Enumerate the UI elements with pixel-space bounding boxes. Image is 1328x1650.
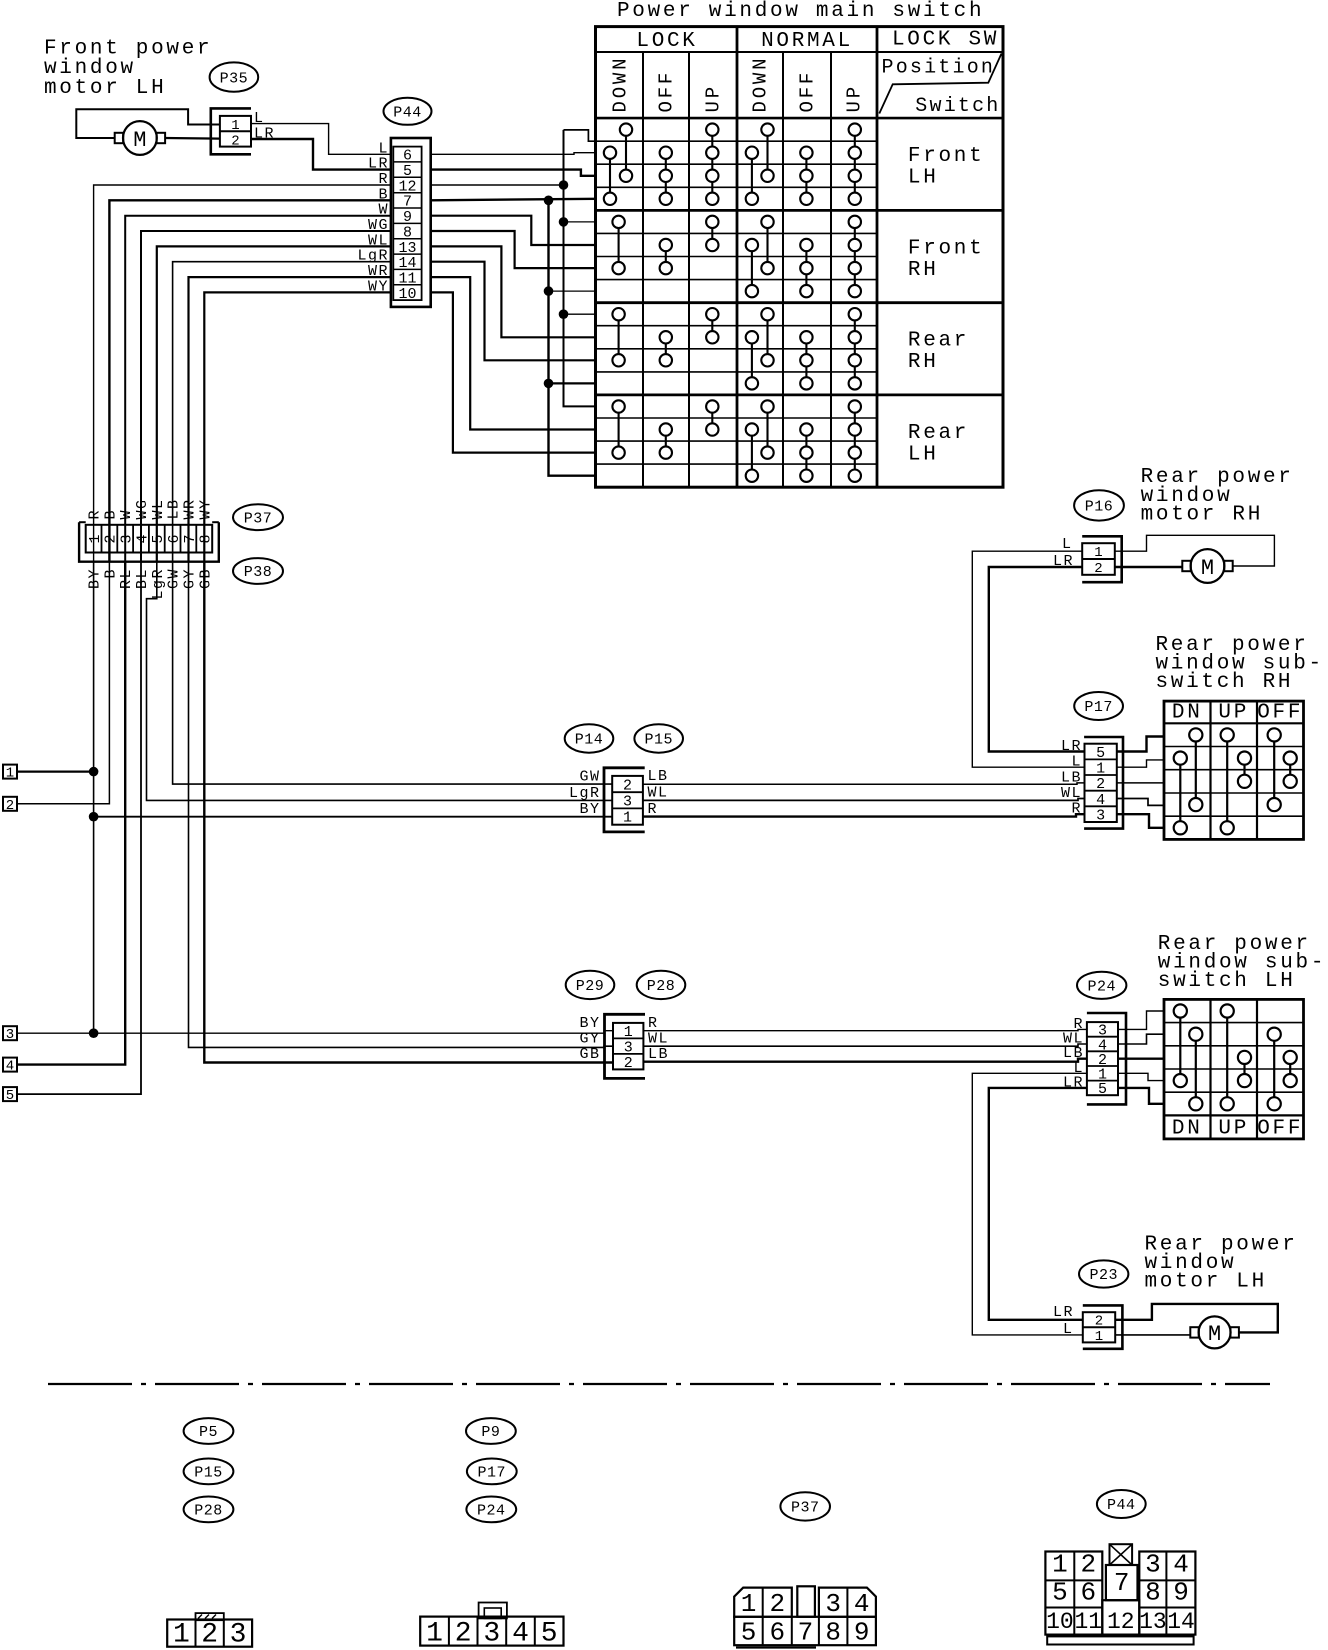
connector view P37 top-right block — [819, 1588, 876, 1617]
wire box1 to BY — [17, 770, 94, 772]
svg-text:2: 2 — [1094, 561, 1102, 577]
svg-text:5: 5 — [541, 1619, 558, 1650]
connector view P5/P15/P28 3-pin — [167, 1620, 252, 1647]
wire B P44 pin7 to table row4 — [431, 199, 596, 201]
connector P14 bracket — [604, 768, 645, 832]
wire P23 pin1 to motor LH — [1115, 1334, 1190, 1336]
oval label P15 — [634, 724, 683, 752]
oval label P16 — [1074, 490, 1124, 520]
svg-text:WG: WG — [134, 498, 151, 519]
svg-text:5: 5 — [6, 1088, 14, 1104]
wire P23 pin2 loop to motor LH — [1115, 1304, 1278, 1333]
svg-text:7: 7 — [798, 1618, 814, 1648]
svg-text:LR: LR — [1061, 738, 1082, 755]
junction BY box3 — [89, 1028, 99, 1038]
svg-text:3: 3 — [623, 794, 632, 811]
oval label P29 — [566, 971, 615, 999]
svg-text:LOCK: LOCK — [636, 30, 697, 53]
svg-text:WL: WL — [1061, 785, 1082, 802]
terminal box 1 — [3, 765, 17, 779]
svg-text:LR: LR — [1053, 1304, 1074, 1321]
connector P29 pin box — [613, 1023, 643, 1070]
svg-text:3: 3 — [230, 1620, 247, 1650]
svg-text:GW: GW — [166, 568, 183, 589]
wire L P16 pin1 to P17 pin1 — [972, 551, 1084, 767]
svg-text:13: 13 — [1139, 1609, 1167, 1635]
motor M rear RH — [1191, 549, 1225, 583]
svg-text:8: 8 — [198, 534, 215, 543]
wire P24 pin3 to table row1 — [1118, 1011, 1164, 1029]
wire P16 pin1 loop to motor RH — [1115, 535, 1275, 566]
connector P16 shell — [1082, 536, 1122, 582]
svg-text:DN: DN — [1172, 1118, 1203, 1141]
svg-text:UP: UP — [1218, 702, 1249, 725]
svg-text:M: M — [1201, 556, 1214, 581]
contacts OFF col rows 2-4 — [800, 147, 812, 159]
contacts UP col rows 1-4 — [849, 123, 861, 135]
svg-text:LB: LB — [166, 498, 183, 519]
connector view P37 9-pin — [734, 1588, 792, 1617]
wire WR P44 pin11 to table row14 — [431, 277, 596, 429]
oval label P37 — [233, 504, 283, 530]
svg-text:P29: P29 — [576, 978, 605, 995]
svg-text:P38: P38 — [244, 564, 273, 581]
main switch row lines — [596, 140, 878, 142]
oval label P17 — [1074, 692, 1123, 720]
wire WL P15 to P17 pin4 — [643, 799, 1085, 801]
svg-text:7: 7 — [182, 534, 199, 543]
svg-text:Position: Position — [882, 57, 996, 80]
svg-text:5: 5 — [1096, 745, 1105, 762]
svg-text:RH: RH — [908, 351, 939, 374]
svg-text:GB: GB — [197, 568, 214, 589]
svg-text:P15: P15 — [194, 1465, 223, 1482]
svg-text:P9: P9 — [481, 1424, 500, 1441]
svg-text:1: 1 — [1094, 545, 1102, 561]
svg-text:RL: RL — [118, 568, 135, 589]
svg-text:3: 3 — [825, 1589, 841, 1619]
terminal box 4 — [3, 1058, 17, 1072]
bus1 top jog to table row1 — [564, 130, 596, 141]
junction R bus1 — [559, 180, 569, 190]
connector view 5-pin latch tab — [479, 1603, 507, 1619]
svg-text:GW: GW — [579, 769, 600, 786]
wire LR P35 pin2 to P44 pin5 — [251, 139, 391, 170]
connector P24 pin box — [1087, 1022, 1118, 1095]
svg-text:M: M — [1208, 1322, 1221, 1347]
sub-switch LH contacts DN — [1174, 1004, 1187, 1017]
wire RL P37 pin3 to box4 — [17, 562, 125, 1065]
svg-text:1: 1 — [6, 766, 14, 782]
svg-text:WL: WL — [150, 498, 167, 519]
wire WG P44 pin8 to table row7 — [431, 231, 596, 268]
junction BY box1 — [89, 767, 99, 777]
svg-text:Front: Front — [908, 145, 985, 168]
wire WG P44 to P37 pin 4 — [141, 231, 391, 562]
svg-text:9: 9 — [1173, 1578, 1189, 1608]
sub-switch LH contacts OFF — [1268, 1028, 1281, 1041]
svg-text:4: 4 — [854, 1589, 870, 1619]
svg-text:P28: P28 — [647, 978, 676, 995]
contacts UP col rows 9-12 — [849, 308, 861, 320]
junction bus2 row8 — [544, 286, 554, 296]
bus1 tap to table row9 — [564, 313, 596, 315]
wire LB P28 to P24 pin2 — [643, 1059, 1087, 1062]
wire R P44 to P37 pin 1 — [94, 185, 391, 562]
motor M front LH — [123, 121, 157, 155]
svg-text:OFF: OFF — [1257, 1118, 1303, 1141]
svg-text:B: B — [102, 568, 119, 579]
svg-text:2: 2 — [1095, 1314, 1103, 1330]
wire WY P44 to P37 pin 8 — [204, 292, 391, 561]
connector P14 pin box — [612, 776, 643, 825]
sub-switch LH contacts UP — [1221, 1004, 1234, 1017]
wire LB P44 to P37 pin 6 — [173, 262, 391, 562]
svg-text:LB: LB — [1061, 769, 1082, 786]
svg-text:2: 2 — [1080, 1550, 1096, 1580]
wire WR P44 to P37 pin 7 — [189, 277, 391, 562]
wire WY P44 pin10 to table row15 — [431, 292, 596, 452]
connector P23 pin box — [1083, 1312, 1115, 1342]
wire motor LH right to P35 — [165, 137, 220, 140]
svg-text:6: 6 — [769, 1618, 785, 1648]
svg-text:R: R — [648, 1015, 659, 1032]
svg-text:P16: P16 — [1085, 499, 1114, 516]
contacts LOCK UP col rows 13-14 — [706, 400, 718, 412]
svg-text:4: 4 — [512, 1619, 529, 1650]
connector P29 bracket — [605, 1014, 646, 1078]
svg-text:NORMAL: NORMAL — [761, 30, 853, 53]
svg-text:P37: P37 — [244, 510, 273, 527]
wire P16 pin2 to motor RH — [1115, 566, 1183, 568]
wire P17 pin4 to table row4 — [1117, 799, 1164, 806]
connector view 3-pin latch tab — [196, 1613, 224, 1620]
contacts OFF col rows 14-16 — [800, 423, 812, 435]
svg-text:2: 2 — [1096, 776, 1105, 793]
connector view P9/P17/P24 5-pin — [420, 1617, 563, 1646]
contacts UP col rows 5-8 — [849, 216, 861, 228]
svg-text:LgR: LgR — [569, 785, 601, 802]
connector P44 shell — [391, 138, 431, 307]
svg-text:Front: Front — [908, 237, 985, 260]
wire W P44 to P37 pin 3 — [125, 216, 391, 562]
connector P17 shell — [1084, 737, 1123, 829]
wire LR P24 pin5 to P23 pin2 — [989, 1088, 1087, 1320]
svg-text:3: 3 — [119, 534, 136, 543]
connector P23 shell — [1083, 1305, 1123, 1348]
oval label P44 — [384, 98, 432, 125]
junction bus1 row5 — [559, 217, 569, 227]
svg-text:P14: P14 — [575, 732, 604, 749]
svg-text:LH: LH — [908, 167, 939, 190]
sub-switch RH contacts DN — [1189, 728, 1202, 741]
connector P37 shell — [79, 522, 219, 562]
svg-text:L: L — [1071, 754, 1082, 771]
wire LR P16 pin2 to P17 pin5 — [989, 567, 1085, 752]
svg-text:LB: LB — [648, 768, 669, 785]
svg-text:BL: BL — [134, 568, 151, 589]
wire P24 pin2 to table row3 — [1118, 1057, 1164, 1059]
bus1 tap to table row5 — [564, 221, 596, 223]
svg-text:GY: GY — [579, 1031, 600, 1048]
svg-text:UP: UP — [844, 84, 866, 112]
wire WL P44 to P37 pin 5 — [157, 246, 391, 561]
svg-text:LH: LH — [908, 443, 939, 466]
contacts DOWN col rows 13-16 — [761, 400, 773, 412]
oval label P37 bottom — [780, 1492, 830, 1520]
oval label P24 bottom — [466, 1497, 516, 1523]
svg-text:motor RH: motor RH — [1141, 504, 1263, 527]
contacts DOWN col rows 1-4 — [620, 123, 632, 135]
motor M rear LH — [1199, 1316, 1231, 1348]
wire BY to P14 pin1 — [94, 816, 613, 818]
svg-text:8: 8 — [1145, 1578, 1161, 1608]
sub-switch LH table frame — [1164, 999, 1304, 1139]
svg-text:P24: P24 — [1087, 979, 1116, 996]
contacts UP col rows 1-4 — [706, 123, 718, 135]
oval label P9 — [466, 1418, 516, 1444]
main switch header line — [596, 51, 1004, 53]
contacts UP col rows 13-16 — [849, 400, 861, 412]
wire R P15 to P17 pin3 — [643, 814, 1085, 816]
oval label P14 — [565, 724, 614, 752]
svg-text:4: 4 — [134, 534, 151, 543]
svg-text:WL: WL — [648, 1031, 669, 1048]
contacts LOCK UP col rows 5-6 — [706, 216, 718, 228]
svg-text:1: 1 — [624, 1024, 633, 1041]
sub-switch RH contacts UP — [1221, 728, 1234, 741]
svg-text:2: 2 — [103, 534, 120, 543]
svg-text:P23: P23 — [1089, 1267, 1118, 1284]
connector view P44 14-pin — [1045, 1552, 1102, 1635]
svg-text:4: 4 — [6, 1059, 14, 1075]
oval label P38 — [233, 558, 283, 584]
contacts LOCK DOWN col rows 9-11 — [612, 308, 624, 320]
svg-text:3: 3 — [6, 1027, 14, 1043]
junction BY P14 — [89, 812, 99, 822]
wire P24 pin4 to table row2 — [1118, 1034, 1164, 1044]
svg-text:Rear: Rear — [908, 330, 969, 353]
svg-text:R: R — [87, 509, 104, 520]
contacts OFF col rows 6-8 — [800, 239, 812, 251]
svg-text:9: 9 — [854, 1618, 870, 1648]
bus1 vertical R net — [564, 130, 596, 407]
connector P44 pin box — [393, 147, 421, 301]
connector view P44 right block — [1139, 1552, 1195, 1635]
svg-text:switch RH: switch RH — [1156, 671, 1294, 694]
oval label P24 — [1077, 972, 1126, 999]
svg-text:1: 1 — [623, 810, 632, 827]
wire R P28 to P24 pin3 — [643, 1029, 1087, 1030]
terminal box 2 — [3, 797, 17, 811]
svg-text:BY: BY — [87, 568, 104, 589]
svg-text:motor LH: motor LH — [1145, 1271, 1267, 1294]
connector view P37 bottom row — [734, 1617, 876, 1645]
svg-text:M: M — [133, 128, 146, 153]
svg-text:1: 1 — [173, 1620, 190, 1650]
svg-text:DOWN: DOWN — [610, 56, 632, 113]
main switch table frame — [596, 27, 1004, 488]
wire WL P28 to P24 pin4 — [643, 1044, 1087, 1046]
wire BL P37 pin4 to box5 — [17, 562, 141, 1094]
svg-text:8: 8 — [825, 1618, 841, 1648]
contacts LOCK DOWN col rows 5-7 — [612, 216, 624, 228]
svg-text:R: R — [1071, 801, 1082, 818]
svg-text:5: 5 — [150, 534, 167, 543]
connector P35 pin box — [220, 116, 251, 147]
svg-text:motor LH: motor LH — [44, 77, 166, 100]
wire R P44 pin12 to bus1 — [431, 184, 564, 186]
svg-text:P44: P44 — [393, 105, 422, 122]
svg-text:P35: P35 — [220, 70, 249, 87]
svg-text:4: 4 — [1096, 792, 1105, 809]
wire LR P44 pin5 to table row3 — [431, 170, 596, 176]
svg-text:1: 1 — [426, 1619, 443, 1650]
svg-text:L: L — [1062, 536, 1071, 553]
contacts LOCK OFF col rows 14-15 — [660, 423, 672, 435]
main switch column lines — [642, 52, 644, 487]
wire GW P37 pin6 to P14 pin2 — [173, 562, 613, 784]
contacts DOWN col rows 1-4 — [761, 123, 773, 135]
wire P17 pin5 to table row1 — [1117, 737, 1164, 752]
svg-text:UP: UP — [703, 84, 725, 112]
svg-text:BY: BY — [579, 801, 600, 818]
contacts LOCK DOWN col rows 13-15 — [612, 400, 624, 412]
sub-switch LH table lines — [1164, 1114, 1304, 1116]
sub-switch RH table lines — [1164, 722, 1304, 724]
sub-switch RH table frame — [1164, 701, 1304, 839]
connector view P44 center cell 7 — [1106, 1565, 1138, 1600]
svg-text:OFF: OFF — [656, 70, 678, 113]
svg-text:2: 2 — [769, 1589, 785, 1619]
svg-text:RH: RH — [908, 259, 939, 282]
wire BY to P29 pin1 — [94, 1031, 613, 1034]
wire W P44 pin9 to table row6 — [431, 216, 596, 245]
wire LB P15 to P17 pin2 — [643, 783, 1085, 784]
svg-text:R: R — [648, 801, 659, 818]
connector view P44 key box with X — [1110, 1544, 1133, 1565]
svg-text:OFF: OFF — [797, 70, 819, 113]
contacts DOWN col rows 5-8 — [761, 216, 773, 228]
svg-text:P5: P5 — [199, 1424, 218, 1441]
wire P17 pin1 to table row2 — [1117, 760, 1164, 767]
svg-text:5: 5 — [1098, 1081, 1107, 1098]
contacts OFF col rows 10-12 — [800, 331, 812, 343]
wire LgR P37 pin5 to P14 pin3 — [147, 562, 613, 801]
svg-text:2: 2 — [455, 1619, 472, 1650]
contacts LOCK UP col rows 9-10 — [706, 308, 718, 320]
wire LgR P44 pin14 to table row11 — [431, 262, 596, 361]
connector P37 pin box — [86, 525, 213, 553]
svg-text:11: 11 — [1074, 1609, 1102, 1635]
svg-text:Switch: Switch — [915, 95, 1000, 118]
svg-text:5: 5 — [1052, 1578, 1068, 1608]
oval label P17 bottom — [467, 1459, 517, 1485]
svg-text:7: 7 — [1114, 1568, 1130, 1598]
oval label P15 bottom — [184, 1459, 234, 1485]
svg-text:12: 12 — [1107, 1609, 1135, 1635]
wire GB P37 pin8 to P29 pin2 — [204, 562, 613, 1063]
main switch header Position/Switch divider — [879, 54, 1001, 114]
terminal box 3 — [3, 1026, 17, 1040]
svg-text:P37: P37 — [791, 1500, 820, 1517]
svg-text:1: 1 — [1095, 1329, 1103, 1345]
junction bus2 row12 — [544, 379, 554, 389]
svg-text:P17: P17 — [1084, 699, 1113, 716]
svg-text:WL: WL — [648, 785, 669, 802]
wire P17 pin2 to table row3 — [1117, 782, 1164, 784]
svg-text:GB: GB — [579, 1046, 600, 1063]
wire L P35 pin1 to P44 pin6 — [251, 124, 391, 155]
svg-text:10: 10 — [1046, 1609, 1074, 1635]
connector view P37 narrow key cell — [797, 1586, 815, 1617]
wire BY P37 pin1 down — [93, 562, 95, 1033]
svg-text:2: 2 — [231, 134, 239, 150]
contacts LOCK OFF col rows 10-11 — [660, 331, 672, 343]
svg-text:UP: UP — [1218, 1118, 1249, 1141]
connector P16 pin box — [1082, 543, 1115, 575]
svg-text:3: 3 — [624, 1040, 633, 1057]
svg-text:4: 4 — [1173, 1550, 1189, 1580]
svg-text:3: 3 — [483, 1619, 500, 1650]
contacts OFF col rows 2-4 — [660, 147, 672, 159]
svg-text:1: 1 — [87, 534, 104, 543]
svg-text:WR: WR — [182, 498, 199, 519]
svg-text:P28: P28 — [194, 1503, 223, 1520]
connector P35 shell — [211, 108, 251, 154]
svg-text:DOWN: DOWN — [750, 56, 772, 113]
svg-text:1: 1 — [1096, 761, 1105, 778]
svg-text:WY: WY — [197, 498, 214, 519]
svg-text:2: 2 — [6, 798, 14, 814]
dashed separator line — [48, 1383, 1270, 1385]
connector view P44 center cell 12 — [1102, 1600, 1139, 1634]
svg-text:3: 3 — [1145, 1550, 1161, 1580]
svg-text:Rear: Rear — [908, 422, 969, 445]
bus2 tap to table row12 — [549, 382, 596, 384]
svg-text:BY: BY — [579, 1015, 600, 1032]
junction B bus2 — [544, 196, 554, 206]
wire motor LH left loop — [76, 109, 220, 138]
svg-text:1: 1 — [231, 118, 239, 134]
svg-text:14: 14 — [1167, 1609, 1195, 1635]
terminal box 5 — [3, 1087, 17, 1101]
svg-text:GY: GY — [182, 568, 199, 589]
svg-text:switch LH: switch LH — [1158, 970, 1296, 993]
junction bus1 row9 — [559, 309, 569, 319]
svg-text:DN: DN — [1172, 702, 1203, 725]
svg-text:2: 2 — [624, 1055, 633, 1072]
wire GY P37 pin7 to P29 pin3 — [189, 562, 614, 1048]
svg-text:B: B — [102, 509, 119, 520]
svg-text:W: W — [118, 509, 135, 520]
wire L P44 pin6 to table row2 — [431, 153, 596, 155]
wire box3 to BY — [17, 1032, 94, 1034]
svg-text:P15: P15 — [644, 732, 673, 749]
oval label P28 bottom — [184, 1497, 234, 1523]
svg-text:1: 1 — [741, 1589, 757, 1619]
oval label P23 — [1079, 1260, 1128, 1287]
wire WL P44 pin13 to table row10 — [431, 246, 596, 337]
wire P24 pin5 to table row5 — [1118, 1088, 1164, 1104]
wire L P24 pin1 to P23 pin1 — [972, 1073, 1087, 1335]
svg-text:P24: P24 — [477, 1503, 506, 1520]
oval label P28 — [637, 971, 686, 999]
svg-text:P44: P44 — [1107, 1497, 1136, 1514]
svg-text:L: L — [1063, 1321, 1072, 1338]
svg-text:LOCK SW: LOCK SW — [892, 28, 999, 51]
oval label P35 — [210, 62, 259, 91]
